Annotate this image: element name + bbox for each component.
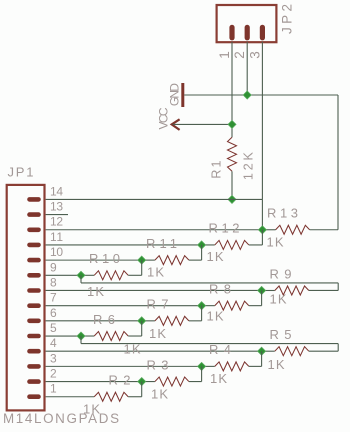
pad JP2 pin 3: [260, 25, 265, 41]
wire R9 left lead: [262, 289, 275, 291]
wire R6 right lead: [128, 335, 142, 337]
resistor R13: [276, 225, 310, 234]
wire return riser pin 9: [337, 283, 339, 291]
wire pin 9 junction down stub: [80, 275, 82, 283]
wire pin 11 row: [46, 244, 202, 246]
wire R7 left lead: [142, 320, 155, 322]
svg-text:R2: R2: [109, 373, 131, 388]
svg-text:R12: R12: [209, 221, 240, 236]
wire R12 right stub up: [261, 230, 263, 245]
svg-text:1K: 1K: [267, 234, 284, 249]
wire pin 1 row: [46, 396, 95, 398]
wire pin 5 row: [46, 335, 81, 337]
resistor R11: [155, 256, 189, 265]
resistor R1: [228, 137, 237, 171]
svg-text:VCC: VCC: [156, 107, 170, 129]
wire pin 8 row: [46, 289, 262, 291]
svg-text:GND: GND: [168, 83, 182, 106]
junction R3 left node: [138, 378, 146, 386]
wire R8 right lead: [249, 305, 262, 307]
svg-text:1: 1: [217, 51, 232, 59]
wire R5 right lead to rail: [309, 350, 338, 352]
svg-text:1K: 1K: [210, 371, 227, 386]
connector JP2 body: [217, 5, 277, 42]
svg-text:7: 7: [50, 291, 57, 305]
wire R6 left lead: [81, 335, 94, 337]
pad JP1 pin 10: [27, 258, 41, 263]
wire right rail GND to R13: [337, 95, 339, 230]
wire R8 left lead: [202, 305, 215, 307]
wire pin 2 row: [46, 381, 142, 383]
resistor R6: [94, 332, 128, 341]
wire pin 3 row: [46, 365, 202, 367]
pad JP1 pin 9: [27, 273, 41, 278]
junction VCC node: [228, 120, 236, 128]
wire R11 left lead: [142, 259, 155, 261]
svg-text:R5: R5: [270, 327, 292, 342]
svg-text:R10: R10: [89, 251, 120, 266]
svg-text:1K: 1K: [207, 308, 224, 323]
svg-text:12: 12: [50, 215, 63, 229]
resistor R7: [155, 316, 189, 325]
wire pin 14 row: [46, 198, 263, 200]
wire pin 4 row: [46, 350, 262, 352]
svg-text:11: 11: [50, 230, 63, 244]
svg-text:12K: 12K: [241, 151, 255, 180]
svg-text:3: 3: [247, 51, 262, 59]
svg-text:9: 9: [50, 260, 57, 274]
pad JP1 pin 6: [27, 319, 41, 324]
junction R10 left node: [77, 271, 85, 279]
junction GND-JP2 pin2: [243, 91, 251, 99]
svg-text:1K: 1K: [207, 249, 224, 264]
svg-text:1K: 1K: [87, 284, 104, 299]
wire R13 right lead to rail: [310, 229, 338, 231]
wire R10 right stub up: [141, 260, 143, 275]
resistor R2: [94, 392, 128, 401]
svg-text:13: 13: [50, 200, 63, 214]
svg-text:5: 5: [50, 321, 57, 335]
wire pin 13 stub: [46, 214, 68, 216]
pad JP1 pin 1: [27, 394, 41, 399]
svg-text:1K: 1K: [83, 402, 100, 417]
wire R12 right lead: [249, 244, 263, 246]
svg-text:JP1: JP1: [8, 164, 34, 179]
svg-text:JP2: JP2: [279, 4, 294, 34]
wire R9 right lead to rail: [309, 289, 338, 291]
wire R12 left lead: [202, 244, 215, 246]
pad JP1 pin 3: [27, 364, 41, 369]
svg-text:R4: R4: [209, 342, 231, 357]
wire R13 left lead: [262, 229, 275, 231]
resistor R3: [155, 377, 189, 386]
wire pin 9 row: [46, 274, 81, 276]
connector JP1 body: [7, 185, 45, 411]
wire pin 6 row: [46, 320, 142, 322]
svg-text:10: 10: [50, 245, 63, 259]
junction R6 left node: [77, 332, 85, 340]
resistor R4: [215, 362, 249, 371]
pad JP1 pin 4: [27, 349, 41, 354]
svg-text:R8: R8: [209, 281, 231, 296]
svg-text:R6: R6: [93, 312, 115, 327]
svg-text:1: 1: [50, 382, 57, 396]
wire R7 right stub up: [201, 306, 203, 321]
junction R11 left node: [138, 256, 146, 264]
resistor R12: [215, 240, 249, 249]
pad JP1 pin 2: [27, 379, 41, 384]
wire JP2 pin 3 vertical: [261, 42, 263, 200]
junction R12 left node: [198, 241, 206, 249]
pad JP1 pin 13: [27, 212, 41, 217]
junction R13 left node: [258, 226, 266, 234]
svg-text:8: 8: [50, 275, 57, 289]
wire R11 right lead: [189, 259, 202, 261]
wire R2 right stub up: [141, 382, 143, 397]
svg-text:1K: 1K: [149, 326, 166, 341]
wire R8 right stub up: [261, 290, 263, 305]
wire R10 right lead: [128, 274, 142, 276]
wire pin14 net drop to R13: [261, 199, 263, 229]
svg-text:2: 2: [50, 367, 57, 381]
svg-text:R11: R11: [146, 236, 177, 251]
wire R1 bottom lead: [231, 171, 233, 199]
resistor R5: [275, 347, 309, 356]
wire GND bar to rail: [184, 94, 338, 96]
pad JP2 pin 2: [245, 25, 250, 41]
wire R4 left lead: [202, 365, 215, 367]
pad JP1 pin 5: [27, 334, 41, 339]
pad JP1 pin 14: [27, 197, 41, 202]
pad JP1 pin 11: [27, 243, 41, 248]
wire return line pin 5: [81, 343, 338, 345]
svg-text:R1: R1: [210, 161, 224, 179]
pad JP1 pin 8: [27, 288, 41, 293]
ground symbol GND bar: [181, 83, 184, 107]
wire JP2 pin 2 to GND line: [246, 42, 248, 95]
wire R6 right stub up: [141, 321, 143, 336]
wire R3 right lead: [189, 381, 202, 383]
wire R5 left lead: [262, 350, 275, 352]
wire R2 right lead: [128, 396, 142, 398]
wire pin 7 row: [46, 305, 202, 307]
wire return riser pin 5: [337, 344, 339, 352]
junction R7 left node: [138, 317, 146, 325]
svg-text:3: 3: [50, 351, 57, 365]
svg-text:4: 4: [50, 336, 57, 350]
svg-text:1K: 1K: [147, 264, 164, 279]
svg-text:6: 6: [50, 306, 57, 320]
svg-text:2: 2: [232, 51, 247, 59]
wire pin 5 junction down stub: [80, 336, 82, 344]
svg-text:1K: 1K: [151, 386, 168, 401]
wire pin 12 row: [46, 229, 263, 231]
svg-text:14: 14: [50, 184, 63, 198]
wire JP2 pin 1 to VCC junction: [231, 42, 233, 125]
svg-text:R9: R9: [270, 266, 292, 281]
wire pin 10 row: [46, 259, 142, 261]
junction R4 left node: [198, 362, 206, 370]
pad JP1 pin 12: [27, 228, 41, 233]
svg-text:1K: 1K: [124, 341, 141, 356]
junction R9 left node: [258, 286, 266, 294]
wire R4 right lead: [249, 365, 262, 367]
junction R1 bottom / pin14 node: [228, 195, 236, 203]
wire R1 top lead: [231, 124, 233, 137]
supply symbol VCC arrow: [172, 119, 180, 130]
junction R5 left node: [258, 347, 266, 355]
resistor R9: [275, 286, 309, 295]
svg-text:R7: R7: [147, 297, 169, 312]
pad JP1 pin 7: [27, 303, 41, 308]
junction R8 left node: [198, 302, 206, 310]
svg-text:1K: 1K: [268, 357, 285, 372]
wire VCC arrow to junction: [173, 123, 232, 125]
svg-text:R13: R13: [267, 206, 298, 221]
wire R7 right lead: [189, 320, 202, 322]
wire R10 left lead: [81, 274, 94, 276]
svg-text:M14LONGPADS: M14LONGPADS: [3, 411, 119, 426]
svg-text:R3: R3: [147, 357, 169, 372]
resistor R10: [94, 271, 128, 280]
pad JP2 pin 1: [229, 25, 234, 41]
wire R11 right stub up: [201, 245, 203, 260]
resistor R8: [215, 301, 249, 310]
wire R4 right stub up: [261, 351, 263, 366]
wire R3 right stub up: [201, 366, 203, 381]
wire R3 left lead: [142, 381, 155, 383]
wire return line pin 9: [81, 282, 338, 284]
svg-text:1K: 1K: [270, 291, 287, 306]
